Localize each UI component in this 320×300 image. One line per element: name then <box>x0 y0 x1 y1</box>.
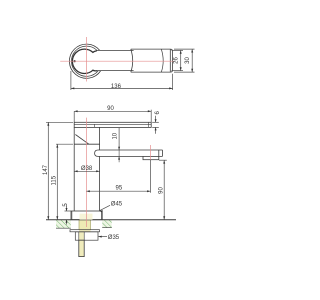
svg-text:95: 95 <box>116 185 123 191</box>
svg-text:147: 147 <box>43 164 49 175</box>
svg-text:30: 30 <box>185 57 191 64</box>
svg-text:Ø35: Ø35 <box>108 235 120 241</box>
svg-text:90: 90 <box>107 106 114 112</box>
svg-text:5: 5 <box>63 203 69 207</box>
svg-text:115: 115 <box>51 175 57 185</box>
svg-text:10: 10 <box>112 132 118 139</box>
svg-text:6: 6 <box>155 110 161 114</box>
svg-text:Ø38: Ø38 <box>81 166 93 172</box>
svg-text:90: 90 <box>158 187 164 194</box>
svg-text:136: 136 <box>111 84 122 90</box>
svg-text:26: 26 <box>174 57 180 64</box>
svg-text:Ø45: Ø45 <box>111 202 123 208</box>
